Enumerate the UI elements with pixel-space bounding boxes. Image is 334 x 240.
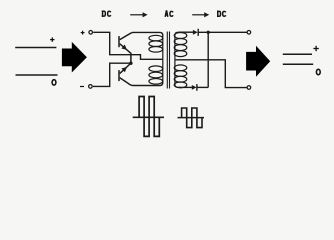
output DC line 0 [283, 63, 313, 65]
transformer core [167, 32, 169, 89]
wire +V to primary center tap [93, 32, 163, 59]
wire Q1 collector to primary top [132, 32, 163, 35]
terminal - input [89, 85, 93, 89]
transformer T1 secondary winding lower [174, 60, 187, 88]
arrow AC-to-DC [192, 12, 209, 17]
big output block arrow [246, 46, 270, 77]
terminal + output [247, 31, 251, 35]
label AC [165, 11, 168, 17]
node emitter junction [129, 62, 132, 65]
arrow DC-to-AC [130, 12, 147, 17]
node rectifier output junction [207, 31, 210, 34]
wire Q2 collector to primary bottom [131, 83, 163, 86]
wire -V to emitter node [93, 63, 131, 86]
terminal + input [89, 31, 93, 35]
input DC line + [15, 47, 56, 49]
big input block arrow [62, 42, 87, 73]
input DC line 0 [16, 74, 58, 76]
wire secondary center tap to - output terminal [175, 60, 247, 88]
wire secondary top to diode D1 [179, 31, 193, 33]
waveform secondary square wave axis [178, 117, 205, 119]
wire secondary bottom to diode D2 [179, 86, 192, 88]
label DC (output) [217, 11, 221, 17]
minus label at oscillator input [80, 86, 84, 88]
terminal - output [247, 86, 251, 90]
diode D2 [192, 84, 197, 91]
plus label at oscillator input [81, 31, 85, 35]
diode D1 [193, 29, 198, 36]
waveform secondary square wave [182, 108, 202, 128]
wire D1 cathode to + output terminal [198, 31, 247, 33]
waveform primary square wave axis [133, 116, 164, 118]
input plus label [50, 37, 54, 41]
transistor Q1 [119, 33, 132, 64]
wire D2 cathode to bus [197, 86, 208, 88]
label DC (input) [102, 11, 106, 17]
input zero label [52, 80, 56, 85]
transformer T1 primary winding upper [149, 35, 163, 59]
wire cathode bus vertical [207, 32, 209, 87]
transistor Q2 [119, 63, 131, 85]
waveform primary square wave [139, 97, 159, 137]
output zero label [316, 69, 320, 74]
output plus label [313, 46, 318, 51]
output DC line + [283, 53, 312, 55]
transformer T1 primary winding lower [149, 59, 163, 84]
transformer T1 secondary winding upper [174, 32, 187, 60]
